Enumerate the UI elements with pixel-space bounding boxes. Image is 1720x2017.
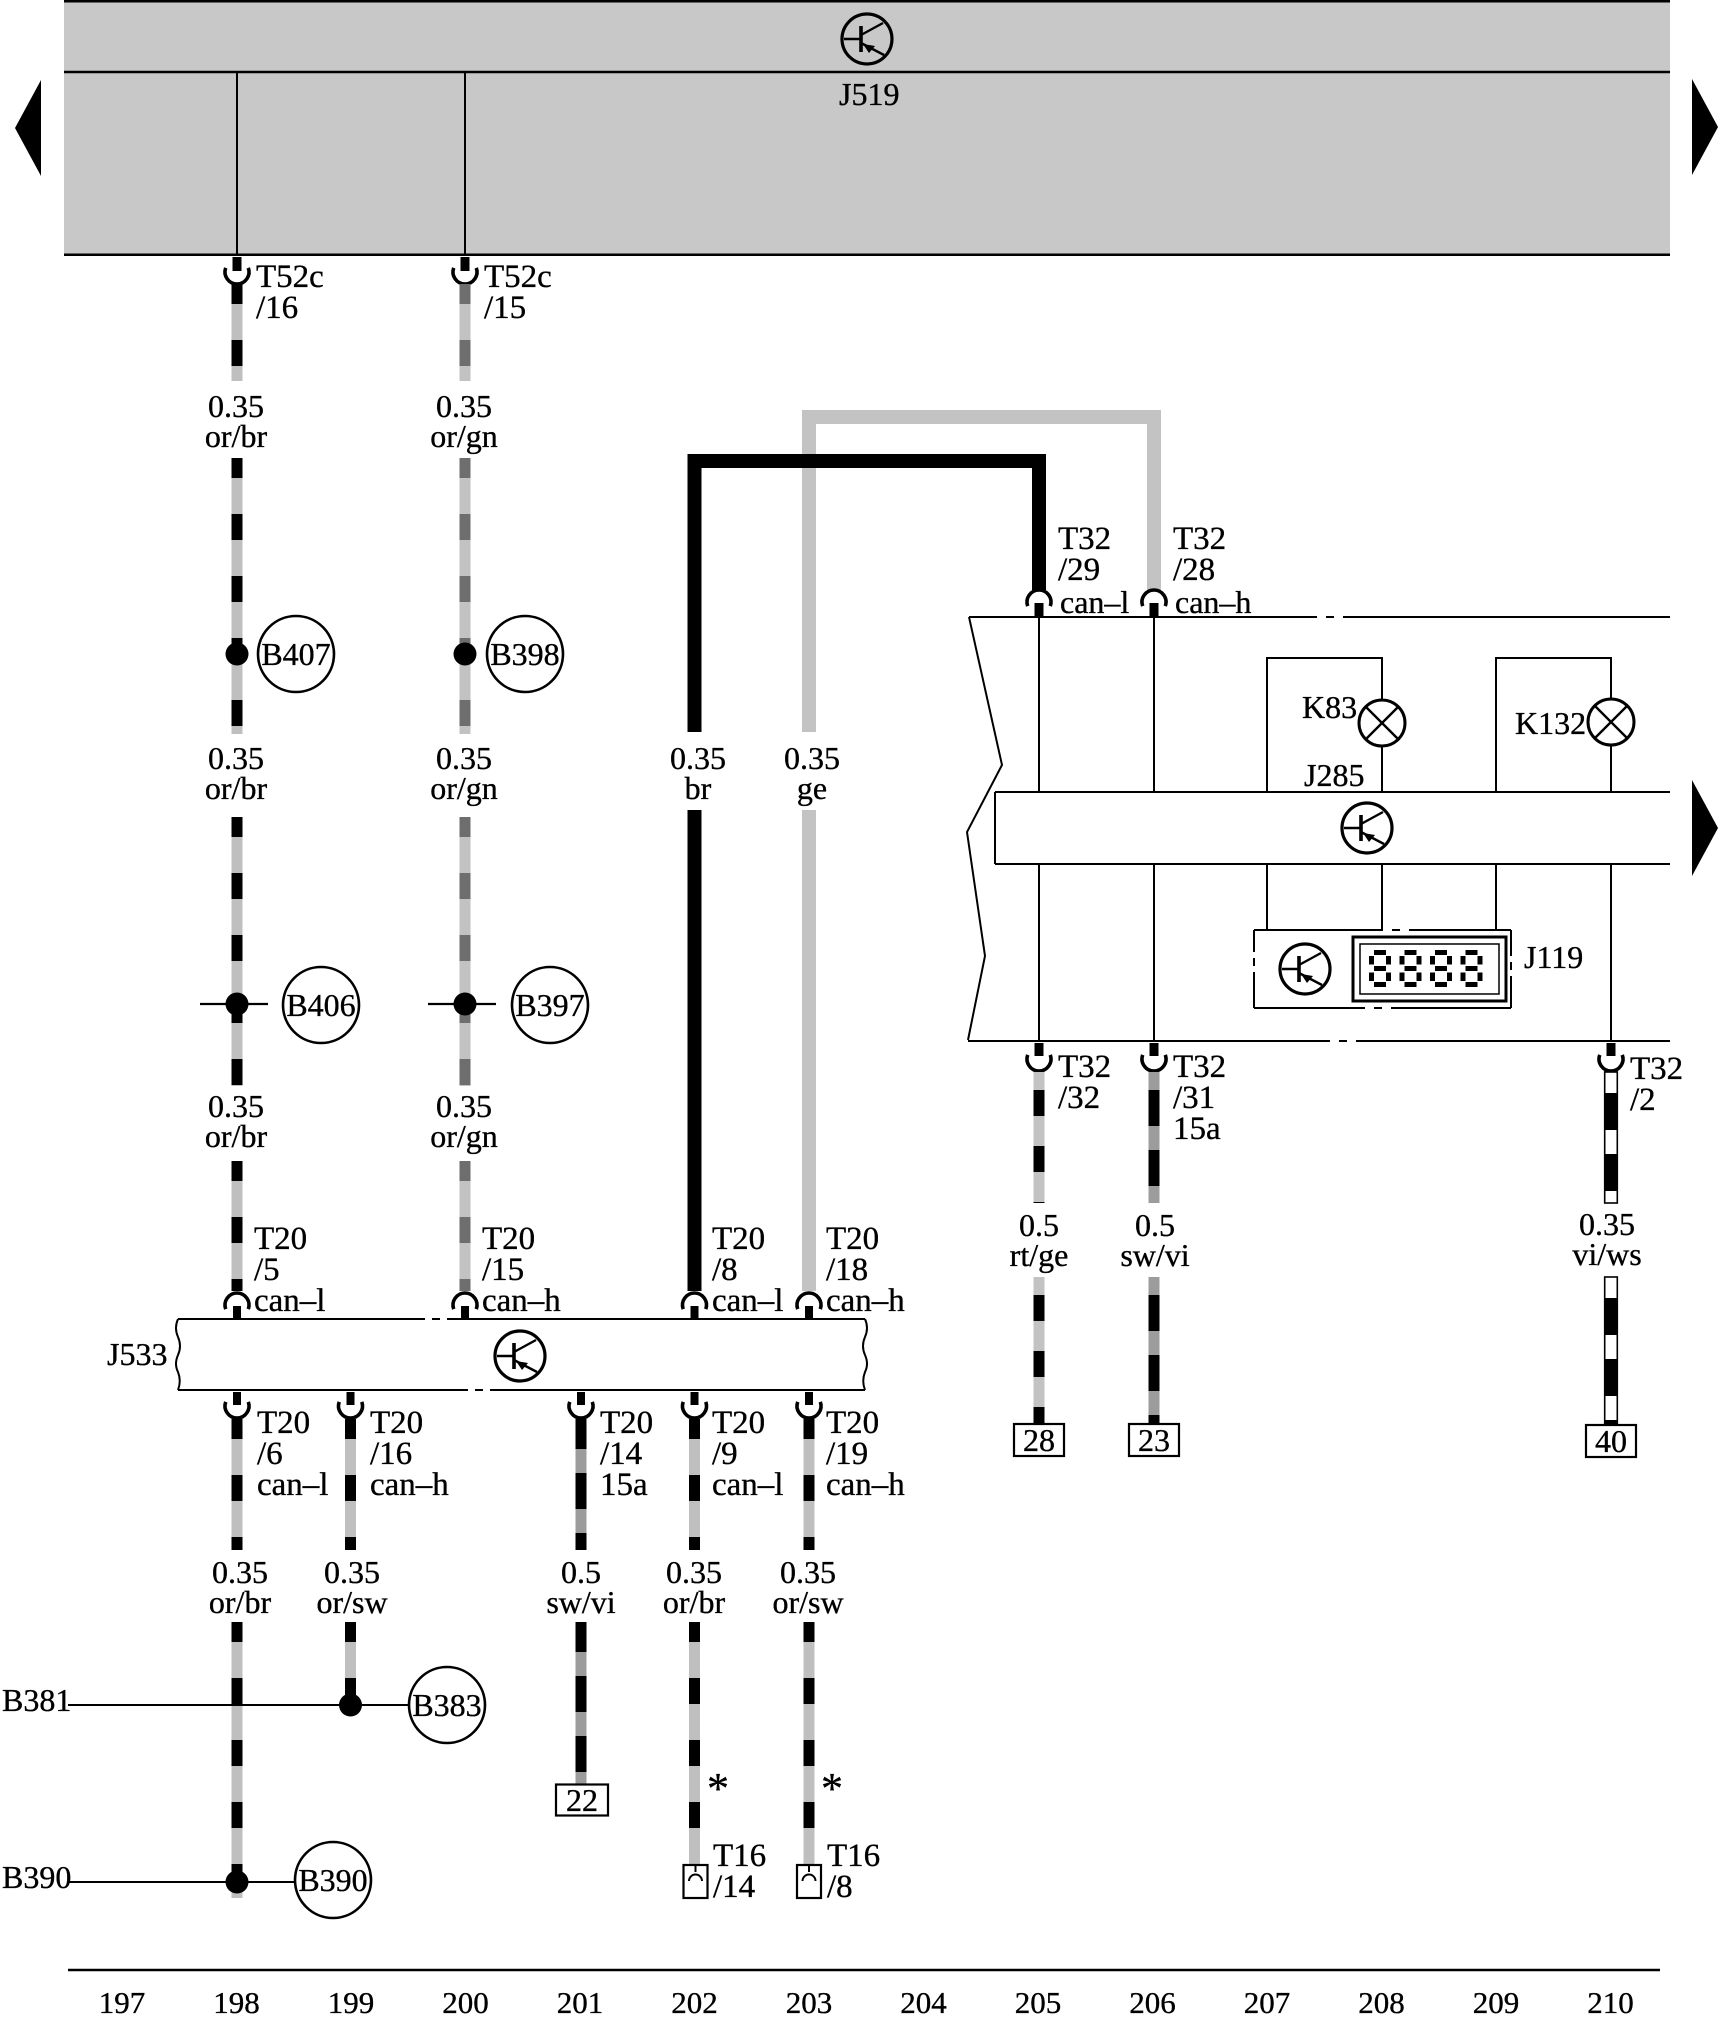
svg-text:K83: K83 — [1302, 689, 1357, 725]
svg-text:209: 209 — [1473, 1985, 1520, 2017]
svg-text:22: 22 — [566, 1782, 598, 1818]
svg-text:J285: J285 — [1304, 757, 1364, 793]
svg-text:or/gn: or/gn — [430, 418, 498, 454]
svg-text:200: 200 — [442, 1985, 489, 2017]
svg-text:199: 199 — [328, 1985, 375, 2017]
svg-text:/32: /32 — [1058, 1080, 1100, 1116]
svg-text:198: 198 — [213, 1985, 260, 2017]
svg-text:/14: /14 — [713, 1869, 755, 1905]
svg-text:J533: J533 — [107, 1336, 167, 1372]
svg-text:can–l: can–l — [1060, 584, 1129, 620]
svg-text:or/br: or/br — [209, 1584, 272, 1620]
svg-text:can–l: can–l — [254, 1283, 325, 1319]
svg-text:B383: B383 — [412, 1687, 481, 1723]
svg-text:/28: /28 — [1173, 552, 1215, 588]
svg-text:can–h: can–h — [1175, 584, 1251, 620]
svg-text:or/gn: or/gn — [430, 1118, 498, 1154]
svg-text:ge: ge — [797, 770, 827, 806]
svg-text:can–l: can–l — [257, 1467, 328, 1503]
svg-text:or/sw: or/sw — [772, 1584, 843, 1620]
svg-text:can–l: can–l — [712, 1467, 783, 1503]
svg-text:15a: 15a — [1173, 1111, 1221, 1147]
svg-text:15a: 15a — [600, 1467, 648, 1503]
svg-text:br: br — [685, 770, 712, 806]
svg-text:201: 201 — [557, 1985, 604, 2017]
svg-text:can–h: can–h — [826, 1467, 905, 1503]
svg-text:206: 206 — [1129, 1985, 1176, 2017]
svg-text:sw/vi: sw/vi — [546, 1584, 615, 1620]
svg-text:rt/ge: rt/ge — [1010, 1237, 1069, 1273]
svg-text:or/br: or/br — [205, 418, 268, 454]
svg-text:23: 23 — [1138, 1422, 1170, 1458]
svg-text:sw/vi: sw/vi — [1120, 1237, 1189, 1273]
svg-text:can–h: can–h — [370, 1467, 449, 1503]
svg-text:*: * — [707, 1764, 729, 1813]
svg-text:B381: B381 — [2, 1682, 71, 1718]
svg-text:/15: /15 — [484, 290, 526, 326]
svg-text:210: 210 — [1587, 1985, 1634, 2017]
svg-text:/8: /8 — [827, 1869, 853, 1905]
svg-text:or/br: or/br — [663, 1584, 726, 1620]
svg-text:/29: /29 — [1058, 552, 1100, 588]
svg-text:or/br: or/br — [205, 770, 268, 806]
svg-text:B407: B407 — [261, 636, 330, 672]
svg-text:/2: /2 — [1630, 1082, 1656, 1118]
svg-text:can–h: can–h — [482, 1283, 561, 1319]
svg-text:or/br: or/br — [205, 1118, 268, 1154]
svg-text:J119: J119 — [1524, 939, 1583, 975]
svg-text:203: 203 — [786, 1985, 833, 2017]
svg-text:208: 208 — [1358, 1985, 1405, 2017]
svg-text:B397: B397 — [515, 987, 584, 1023]
svg-text:B406: B406 — [286, 987, 355, 1023]
svg-text:28: 28 — [1023, 1422, 1055, 1458]
svg-text:B390: B390 — [298, 1862, 367, 1898]
svg-text:or/sw: or/sw — [316, 1584, 387, 1620]
svg-text:can–h: can–h — [826, 1283, 905, 1319]
svg-text:205: 205 — [1015, 1985, 1062, 2017]
svg-text:204: 204 — [900, 1985, 947, 2017]
svg-text:can–l: can–l — [712, 1283, 783, 1319]
svg-text:207: 207 — [1244, 1985, 1291, 2017]
svg-text:B398: B398 — [490, 636, 559, 672]
svg-text:*: * — [821, 1764, 843, 1813]
svg-text:J519: J519 — [839, 76, 899, 112]
svg-text:or/gn: or/gn — [430, 770, 498, 806]
svg-text:B390: B390 — [2, 1859, 71, 1895]
svg-text:202: 202 — [671, 1985, 718, 2017]
svg-text:/16: /16 — [256, 290, 298, 326]
svg-text:K132: K132 — [1515, 705, 1586, 741]
svg-text:40: 40 — [1595, 1423, 1627, 1459]
svg-text:197: 197 — [99, 1985, 146, 2017]
svg-text:vi/ws: vi/ws — [1572, 1236, 1641, 1272]
